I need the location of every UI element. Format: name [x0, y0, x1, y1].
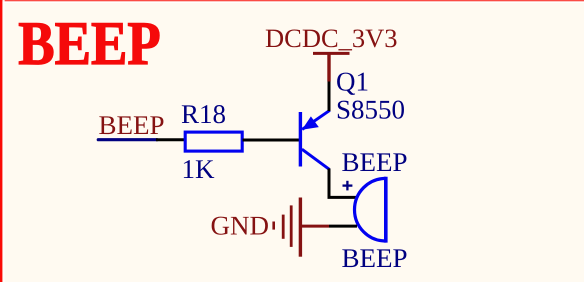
ground bar 1 [272, 222, 275, 230]
svg-text:R18: R18 [181, 99, 226, 129]
buzzer plus sign [343, 184, 353, 186]
ground bar 3 [290, 205, 293, 247]
transistor Q1 base bar [299, 112, 302, 167]
transistor Q1 collector [302, 149, 330, 169]
wire R18 to base [243, 139, 301, 142]
wire ground stub [300, 225, 329, 228]
svg-text:GND: GND [211, 211, 270, 241]
svg-text:BEEP: BEEP [342, 147, 408, 177]
svg-text:S8550: S8550 [336, 95, 405, 125]
svg-text:DCDC_3V3: DCDC_3V3 [265, 23, 398, 53]
wire from BEEP label to R18 [156, 138, 186, 141]
ground bar 4 [299, 198, 302, 257]
svg-text:Q1: Q1 [336, 67, 369, 97]
svg-text:BEEP: BEEP [18, 10, 161, 78]
power port bar [313, 52, 350, 55]
ground bar 2 [282, 215, 285, 239]
svg-text:BEEP: BEEP [342, 243, 408, 273]
sheet border top [0, 0, 584, 1]
transistor Q1 emitter arrow [302, 116, 319, 129]
wire to buzzer negative [329, 225, 357, 228]
net label underline (wire segment) [98, 138, 157, 141]
power port stem [327, 53, 330, 81]
buzzer flat edge [384, 177, 388, 243]
wire collector to buzzer [329, 169, 357, 198]
buzzer body arc [355, 178, 386, 241]
sheet border left [0, 0, 2, 282]
transistor Q1 emitter [302, 110, 330, 129]
svg-text:1K: 1K [182, 154, 216, 184]
svg-text:BEEP: BEEP [99, 110, 165, 140]
wire power to emitter [328, 82, 331, 112]
resistor R18 [185, 132, 242, 151]
